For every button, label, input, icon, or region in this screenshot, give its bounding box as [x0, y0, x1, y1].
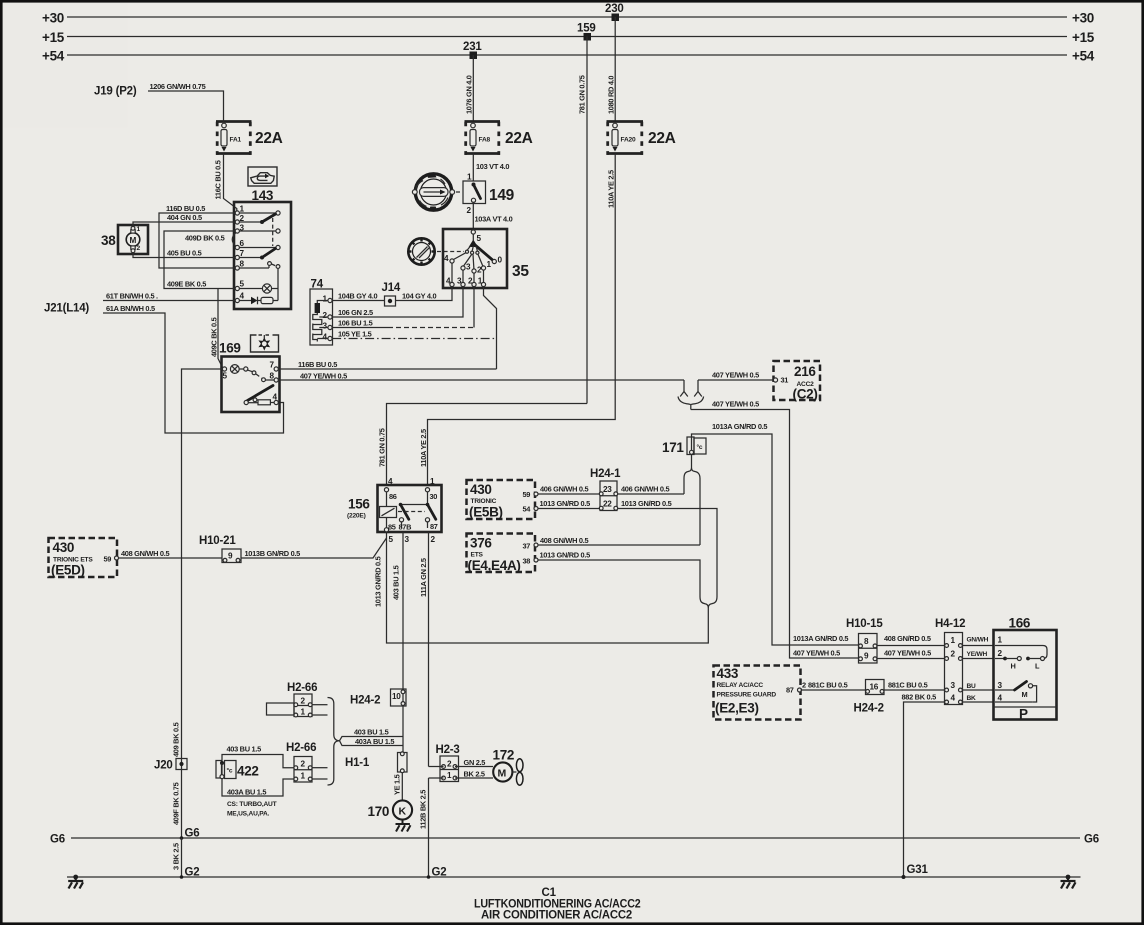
svg-text:2: 2 [951, 650, 956, 659]
svg-text:112B BK 2.5: 112B BK 2.5 [419, 790, 428, 829]
wire 103A VT 4.0 (149 to 35) [472, 204, 474, 230]
svg-text:116B BU 0.5: 116B BU 0.5 [298, 360, 337, 369]
svg-text:1: 1 [998, 636, 1003, 645]
svg-text:°c: °c [697, 443, 703, 451]
wires H2-66 upper to brace [312, 704, 327, 706]
svg-text:(C2): (C2) [793, 387, 818, 402]
wire 407 YE/WH 0.5 lower run to H10-15 pin 9 [691, 410, 859, 659]
svg-text:2: 2 [468, 277, 473, 286]
svg-text:230: 230 [605, 3, 624, 15]
svg-text:+15: +15 [1072, 30, 1095, 45]
143 indicator lamp [239, 288, 262, 290]
wire 408 GN/RD 0.5 (H10-15 to H4-12 pin1) [877, 645, 945, 647]
svg-text:2: 2 [802, 681, 806, 690]
wire 1013 GN/RD 0.5 (376 pin38, down at x700) [538, 560, 700, 597]
svg-text:216: 216 [794, 364, 816, 379]
svg-text:403A BU 1.5: 403A BU 1.5 [355, 737, 394, 746]
35 position 3 contact [461, 266, 465, 270]
35 pin 5 top [471, 230, 475, 234]
svg-text:87: 87 [430, 522, 438, 531]
svg-text:1080 RD 4.0: 1080 RD 4.0 [607, 76, 616, 114]
svg-text:4: 4 [240, 292, 245, 301]
fuse FA1 [216, 120, 252, 155]
wire 406 GN/WH 0.5 (H24-1 pin23 east, up to brace) [618, 493, 684, 495]
svg-text:781 GN 0.75: 781 GN 0.75 [378, 428, 387, 467]
svg-text:61A BN/WH 0.5: 61A BN/WH 0.5 [106, 304, 155, 313]
svg-text:171: 171 [662, 440, 684, 455]
H10-15 pin 8 circles [859, 644, 863, 648]
icon blower/snowflake above 169 [251, 335, 279, 352]
svg-text:1013 GN/RD 0.5: 1013 GN/RD 0.5 [621, 499, 672, 508]
wires H2-66 lower to brace [312, 767, 327, 769]
svg-text:106 GN 2.5: 106 GN 2.5 [338, 308, 373, 317]
H24-1 pin 22 circles [599, 506, 603, 510]
svg-text:G6: G6 [1084, 834, 1099, 846]
svg-text:170: 170 [368, 804, 390, 819]
svg-text:H2-66: H2-66 [287, 682, 317, 694]
svg-text:35: 35 [512, 263, 529, 280]
svg-text:8: 8 [240, 260, 245, 269]
svg-text:22A: 22A [648, 130, 676, 147]
wire 116C BU 0.5 (FA1 to 143 pin 1) [224, 154, 237, 212]
wire 105 YE 1.5 (74 pin4, dash-dot run) [332, 338, 496, 340]
wire 404 GN 0.5 (38 pin1 to 143 pin2) [133, 222, 235, 227]
svg-text:2: 2 [998, 649, 1003, 658]
wire 104B GY 4.0 (74 pin1 to J14) [332, 300, 384, 302]
svg-text:1013B GN/RD 0.5: 1013B GN/RD 0.5 [245, 549, 301, 558]
166 P section [994, 706, 1057, 708]
svg-text:404 GN 0.5: 404 GN 0.5 [167, 213, 202, 222]
wire YE 1.5 (H1-1 to klixon 170) [401, 773, 403, 801]
svg-text:422: 422 [237, 764, 259, 779]
svg-text:23: 23 [603, 485, 612, 494]
149 switch arm [474, 185, 481, 199]
156 switch link and arms [427, 492, 429, 505]
svg-text:2: 2 [301, 760, 306, 769]
svg-text:5: 5 [389, 535, 394, 544]
422 temp box [225, 761, 237, 779]
156 coil [386, 492, 388, 507]
166 M switch row3 [995, 689, 1015, 691]
wire 409E BK 0.5 (143 pin3 loop to pin5) [164, 231, 235, 289]
svg-text:403 BU 1.5: 403 BU 1.5 [354, 728, 389, 737]
35 spread contacts under pivot [467, 246, 470, 250]
wire 1013 GN/RD trunk down and west to relay pin 85 riser [387, 532, 709, 643]
svg-text:3: 3 [998, 681, 1003, 690]
svg-text:1: 1 [301, 708, 306, 717]
svg-text:H1-1: H1-1 [345, 757, 370, 769]
ground symbol right end of G2 [1061, 875, 1076, 889]
svg-text:59: 59 [523, 490, 531, 499]
svg-text:2: 2 [323, 311, 328, 320]
svg-text:433: 433 [717, 666, 739, 681]
svg-text:H24-2: H24-2 [350, 695, 380, 707]
35 bottom pins 4 3 2 1 [451, 263, 453, 282]
svg-text:408 GN/WH 0.5: 408 GN/WH 0.5 [540, 536, 588, 545]
143 pin 6 [235, 245, 239, 249]
svg-text:H2-3: H2-3 [436, 744, 460, 756]
svg-text:156: 156 [348, 497, 370, 512]
wire 408 GN/WH 0.5 (E5D to H10-21) [119, 557, 223, 559]
svg-text:1: 1 [301, 772, 306, 781]
svg-text:3: 3 [457, 277, 462, 286]
wire 881C BU 0.5 (433 to H24-2) [801, 689, 866, 691]
svg-text:1: 1 [430, 477, 435, 486]
svg-text:169: 169 [219, 341, 241, 356]
74 pin 4 [328, 336, 332, 340]
149 pin 2 [471, 198, 475, 202]
svg-text:110A YE 2.5: 110A YE 2.5 [419, 429, 428, 467]
svg-text:38: 38 [101, 233, 116, 248]
38 motor symbol M [126, 233, 140, 247]
wire 61A BN/WH 0.5 to 169 pin 4 [103, 313, 284, 433]
svg-text:(E2,E3): (E2,E3) [715, 701, 759, 716]
svg-text:1: 1 [323, 295, 328, 304]
wire 104 GY 4.0 (J14 to 35 pin 4) [396, 287, 453, 301]
svg-text:409C BK 0.5: 409C BK 0.5 [210, 317, 219, 357]
wire 35 pin1 jog down to 116B junction [484, 287, 497, 369]
wire 112B BK 2.5 (H2-3 pin1 down to G2) [428, 778, 430, 877]
143 switch arm lower [239, 257, 262, 259]
wire GN 2.5 (H2-3 to motor) [455, 766, 493, 768]
H10-15 pin 9 circles [859, 657, 863, 661]
wire 408 GN/WH 0.5 (376 pin37 to brace riser) [538, 544, 700, 546]
143 switch arm upper [239, 221, 262, 223]
svg-text:BK 2.5: BK 2.5 [464, 770, 485, 779]
icon rotary knob [408, 238, 434, 264]
wire 1080 RD 4.0 (node 230 to fuse FA20) [614, 17, 616, 122]
svg-text:1013A GN/RD 0.5: 1013A GN/RD 0.5 [712, 422, 767, 431]
svg-text:409 BK 0.5: 409 BK 0.5 [172, 722, 181, 757]
node 159 on +15 [584, 33, 592, 41]
riser 406 GN/WH to brace [683, 479, 685, 495]
143 pin 1 [235, 211, 239, 215]
143 internal right rail [277, 269, 279, 301]
35 wiper arm to position 0 [473, 244, 492, 260]
svg-text:8: 8 [864, 637, 869, 646]
143 pin 2 [235, 220, 239, 224]
svg-text:9: 9 [864, 652, 869, 661]
wire 403 BU below H24-2 down through H1-1 [402, 705, 404, 752]
143 pin 3 [235, 229, 239, 233]
169 pin 7 [274, 367, 278, 371]
svg-text:31: 31 [781, 376, 789, 385]
wire 409C BK 0.5 branch down to 169 pin 5 [218, 289, 223, 368]
169 pin 8 [274, 378, 278, 382]
svg-text:H10-15: H10-15 [846, 618, 883, 630]
H4-12 pin4 circles [945, 700, 949, 704]
component 143 box [234, 202, 291, 309]
wire 409 BK 0.5 from 169 pin5 to ground G6 [182, 369, 223, 838]
svg-text:5: 5 [240, 280, 245, 289]
143 pin 5 [235, 286, 239, 290]
216 pin 31 [773, 378, 777, 382]
svg-text:1: 1 [137, 226, 141, 233]
svg-text:407 YE/WH 0.5: 407 YE/WH 0.5 [884, 649, 931, 658]
svg-text:1013 GN/RD 0.5: 1013 GN/RD 0.5 [540, 551, 591, 560]
component 169 box [222, 357, 280, 413]
svg-text:1: 1 [478, 277, 483, 286]
svg-text:408 GN/RD 0.5: 408 GN/RD 0.5 [884, 634, 931, 643]
156 pin 85 [384, 528, 388, 532]
svg-text:4: 4 [951, 694, 956, 703]
svg-text:4: 4 [446, 277, 451, 286]
wire 882 BK 0.5 (H4-12 pin4 west, down to G31) [904, 702, 945, 877]
svg-text:+54: +54 [1072, 49, 1095, 64]
74 internal resistor elements [317, 301, 328, 304]
wire 116D BU 0.5 (143 pin1 jumper to pin8) [159, 213, 235, 268]
svg-text:10: 10 [392, 692, 401, 701]
svg-text:87B: 87B [399, 523, 412, 532]
156 contact 87 [425, 518, 429, 522]
35 position 4 contact [450, 259, 454, 263]
svg-text:FA1: FA1 [230, 137, 242, 144]
svg-text:405 BU 0.5: 405 BU 0.5 [167, 249, 202, 258]
svg-text:430: 430 [470, 482, 492, 497]
svg-text:111A GN 2.5: 111A GN 2.5 [419, 558, 428, 597]
svg-text:116D BU 0.5: 116D BU 0.5 [166, 204, 205, 213]
143 mechanical link dashed [272, 218, 274, 246]
jumper plug on H2-66 upper [267, 703, 295, 715]
143 pin8 internal contact [239, 267, 269, 269]
svg-text:61T BN/WH 0.5 .: 61T BN/WH 0.5 . [106, 292, 158, 301]
svg-text:7: 7 [240, 249, 245, 258]
169 pin 5 [222, 367, 226, 371]
svg-text:9: 9 [228, 552, 233, 561]
svg-text:2: 2 [431, 535, 436, 544]
svg-text:°c: °c [227, 767, 233, 775]
svg-text:403 BU 1.5: 403 BU 1.5 [227, 745, 262, 754]
svg-text:16: 16 [870, 683, 879, 692]
svg-text:8: 8 [270, 372, 275, 381]
143 pin 4 [235, 298, 239, 302]
H4-12 pin3 circles [945, 688, 949, 692]
172 fan blades [512, 771, 516, 773]
svg-text:22: 22 [603, 500, 612, 509]
svg-text:G31: G31 [907, 864, 929, 876]
143 diode + resistor on pin 4 row [239, 300, 251, 302]
wire 106 GN 2.5 (74 pin2 to 35 pin 3) [332, 287, 463, 317]
svg-text:430: 430 [53, 540, 75, 555]
svg-text:403A BU 1.5: 403A BU 1.5 [227, 788, 266, 797]
169 rheostat arm [248, 386, 274, 401]
svg-text:K: K [399, 806, 407, 818]
166 H/L pressure contacts [995, 658, 1005, 660]
166 row1 loop to row2 [995, 646, 1047, 659]
svg-text:403 BU 1.5: 403 BU 1.5 [392, 565, 401, 600]
wire 403 BU 1.5 (brace to vertical) [340, 737, 404, 741]
wire 1013 GN/RD 0.5 (H24-1 pin22 east, down at x717) [618, 509, 717, 597]
svg-text:110A YE 2.5: 110A YE 2.5 [607, 170, 616, 208]
wire 1013B GN/RD 0.5 (H10-21 to relay pin 85) [241, 538, 387, 558]
svg-text:4: 4 [444, 254, 449, 263]
svg-text:G2: G2 [432, 867, 447, 879]
wire 407 YE/WH 0.5 (169 pin8 east) [278, 379, 684, 381]
35 position 2 contact [472, 269, 476, 273]
svg-text:+30: +30 [42, 11, 64, 26]
wire from 171 down to bundle brace [691, 455, 693, 468]
143 contact pin3 row [239, 230, 276, 232]
svg-text:1013A GN/RD 0.5: 1013A GN/RD 0.5 [793, 634, 848, 643]
harness brace gathering H2-66 wires [328, 698, 340, 786]
svg-text:3 BK 2.5: 3 BK 2.5 [172, 843, 181, 870]
mech link dashes knob to 35 [437, 251, 464, 253]
422 loop wires [222, 755, 294, 768]
35 position 1 contact [481, 266, 485, 270]
wire 405 BU 0.5 (38 pin2 to 143 pin7) [133, 253, 235, 258]
svg-text:409E BK 0.5: 409E BK 0.5 [167, 280, 206, 289]
svg-text:87: 87 [786, 686, 794, 695]
svg-text:C1: C1 [542, 887, 557, 899]
svg-text:2: 2 [467, 206, 472, 215]
wire 403A BU 1.5 [340, 741, 404, 746]
svg-text:2: 2 [447, 760, 452, 769]
svg-text:1013 GN/RD 0.5: 1013 GN/RD 0.5 [374, 556, 383, 607]
wire 409D BK 0.5 (143 pin3-pin6 jumper arc) [232, 233, 236, 247]
svg-text:781 GN 0.75: 781 GN 0.75 [578, 75, 587, 114]
svg-text:105 YE 1.5: 105 YE 1.5 [338, 330, 372, 339]
wire 407 YE/WH 0.5 to 216 pin 31 [698, 379, 774, 381]
svg-text:166: 166 [1009, 616, 1031, 631]
wire 103 VT 4.0 (FA8 to 149) [472, 154, 474, 182]
svg-text:85: 85 [388, 523, 396, 532]
svg-text:J14: J14 [382, 282, 401, 294]
wire 111A GN 2.5 from relay pin 2 down to H2-3 [428, 532, 430, 767]
svg-text:409D BK 0.5: 409D BK 0.5 [185, 234, 225, 243]
svg-text:RELAY AC/ACC: RELAY AC/ACC [717, 682, 764, 689]
H24-1 pin 23 circles [599, 492, 603, 496]
35 position 0 contact [492, 259, 496, 263]
svg-text:CS: TURBO,AUT: CS: TURBO,AUT [227, 801, 277, 808]
svg-text:59: 59 [104, 555, 112, 564]
svg-text:G6: G6 [50, 834, 65, 846]
svg-text:H4-12: H4-12 [935, 618, 965, 630]
bundle brace (two wires merge below 171) [684, 468, 700, 479]
143 pin 7 [235, 255, 239, 259]
svg-text:881C BU 0.5: 881C BU 0.5 [808, 681, 848, 690]
svg-text:4: 4 [273, 393, 278, 402]
38 terminal 2 [131, 246, 135, 249]
svg-text:409F BK 0.75: 409F BK 0.75 [172, 782, 181, 825]
svg-text:408 GN/WH 0.5: 408 GN/WH 0.5 [121, 549, 169, 558]
icon ignition key [412, 174, 454, 210]
svg-text:BU: BU [967, 683, 977, 690]
74 pin 1 [328, 298, 332, 302]
svg-text:(220E): (220E) [347, 513, 366, 520]
svg-text:P: P [1019, 707, 1028, 722]
svg-text:407 YE/WH 0.5: 407 YE/WH 0.5 [793, 649, 840, 658]
svg-text:FA8: FA8 [479, 137, 491, 144]
svg-text:GN 2.5: GN 2.5 [464, 758, 486, 767]
422 thermostat symbol [216, 761, 222, 779]
svg-text:1013 GN/RD 0.5: 1013 GN/RD 0.5 [540, 499, 591, 508]
svg-text:PRESSURE GUARD: PRESSURE GUARD [717, 692, 777, 699]
svg-text:149: 149 [489, 187, 515, 204]
wire 1076 GN 4.0 (node 231 to fuse FA8) [472, 55, 474, 122]
svg-text:BK: BK [967, 695, 977, 702]
wire 881C BU 0.5 (H24-2 to H4-12 pin3) [884, 689, 945, 691]
svg-text:231: 231 [463, 41, 482, 53]
wire 61T BN/WH 0.5 to 143 pin 4 [103, 300, 235, 302]
svg-text:M: M [1022, 690, 1028, 699]
svg-text:3: 3 [323, 322, 328, 331]
svg-text:159: 159 [577, 23, 596, 35]
svg-text:J21(L14): J21(L14) [44, 303, 89, 315]
169 bottom contacts and resistor [244, 400, 248, 404]
mech link dashes icon to 149 [456, 191, 463, 193]
svg-text:AIR CONDITIONER AC/ACC2: AIR CONDITIONER AC/ACC2 [481, 910, 632, 922]
wire 406 GN/WH 0.5 (430 to H24-1) [538, 493, 600, 495]
svg-text:116C BU 0.5: 116C BU 0.5 [214, 160, 223, 199]
svg-text:3: 3 [951, 681, 956, 690]
lower bundle brace [700, 597, 717, 608]
svg-text:1206 GN/WH 0.75: 1206 GN/WH 0.75 [150, 82, 206, 91]
wire 110A YE 2.5 from FA20 down to relay pin 1 [428, 154, 616, 486]
wire 407 YE/WH 0.5 (H10-15 to H4-12 pin2) [877, 658, 945, 660]
svg-text:2: 2 [137, 245, 141, 252]
fuse FA20 [607, 120, 644, 155]
icon recirculation (car) above 143 [248, 167, 277, 186]
box 216 ACC2 (C2) dashed [774, 361, 821, 400]
svg-text:406 GN/WH 0.5: 406 GN/WH 0.5 [540, 485, 588, 494]
bus +15 [67, 36, 1067, 38]
svg-text:1: 1 [447, 771, 452, 780]
page border frame [0, 0, 1144, 3]
svg-text:406 GN/WH 0.5: 406 GN/WH 0.5 [621, 485, 669, 494]
component 35 box [443, 229, 507, 288]
svg-text:G6: G6 [185, 828, 200, 840]
svg-text:407 YE/WH 0.5: 407 YE/WH 0.5 [300, 372, 347, 381]
35 rotary pivot [469, 240, 478, 248]
156 contact 87B [399, 518, 403, 522]
svg-text:1: 1 [467, 173, 472, 182]
166 row4 [995, 701, 1032, 703]
svg-text:3: 3 [405, 535, 410, 544]
G6 rail [71, 837, 1080, 839]
component 38 box [118, 225, 148, 254]
component 74 box [310, 289, 333, 345]
143 internal switch upper: contact row [239, 212, 276, 214]
svg-text:22A: 22A [505, 130, 533, 147]
H4-12 pin1 circles [945, 644, 949, 648]
wire 781 GN 0.75 lower run to relay pin 4 [387, 404, 588, 486]
svg-text:FA20: FA20 [621, 137, 636, 144]
svg-text:1: 1 [240, 205, 245, 214]
169 pin 4 [274, 400, 278, 404]
svg-text:407 YE/WH 0.5: 407 YE/WH 0.5 [712, 400, 759, 409]
svg-text:J19 (P2): J19 (P2) [94, 86, 137, 98]
relay 156 box [378, 485, 442, 532]
svg-text:GN/WH: GN/WH [967, 637, 989, 644]
svg-text:(E4,E4A): (E4,E4A) [468, 558, 521, 573]
node 230 on +30 [612, 14, 620, 22]
svg-text:7: 7 [270, 361, 275, 370]
svg-text:YE 1.5: YE 1.5 [393, 774, 402, 795]
svg-text:(E5B): (E5B) [469, 505, 503, 520]
riser 408 GN/WH to brace [699, 479, 701, 546]
svg-text:2: 2 [301, 697, 306, 706]
wire 781 GN 0.75 (node 159 down) [586, 37, 588, 404]
svg-text:407 YE/WH 0.5: 407 YE/WH 0.5 [712, 371, 759, 380]
svg-text:6: 6 [240, 239, 245, 248]
svg-text:882 BK 0.5: 882 BK 0.5 [902, 693, 937, 702]
component 149 box [463, 181, 486, 204]
svg-text:38: 38 [523, 557, 531, 566]
svg-text:104 GY 4.0: 104 GY 4.0 [402, 292, 436, 301]
svg-text:4: 4 [323, 333, 328, 342]
74 pin 3 [328, 325, 332, 329]
svg-text:0: 0 [498, 256, 503, 265]
